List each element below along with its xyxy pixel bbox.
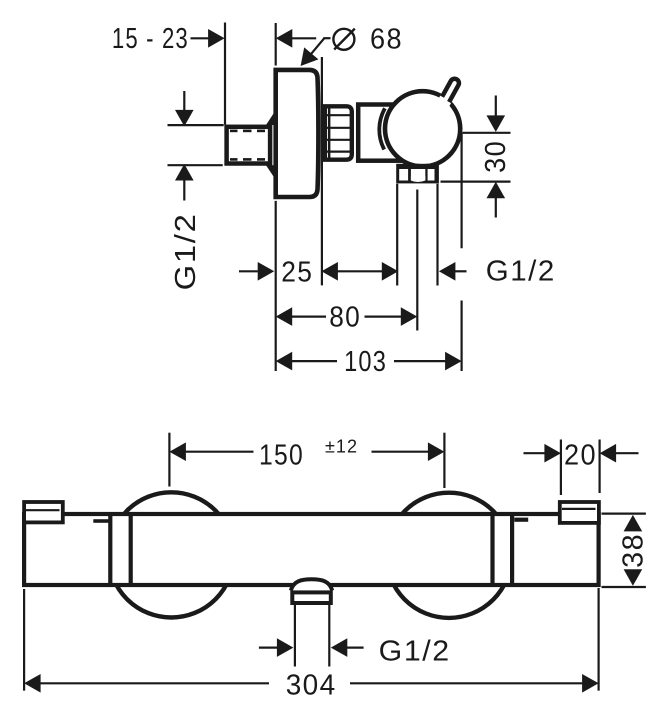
outlet nut side view <box>396 164 439 184</box>
svg-text:304: 304 <box>286 669 337 701</box>
extension line face lower <box>275 201 277 371</box>
dimension 304 <box>24 669 599 701</box>
wall escutcheon right <box>560 502 599 523</box>
dimension O68 arrow <box>276 29 316 48</box>
dimension G1/2 outlet side view <box>382 256 556 288</box>
svg-text:103: 103 <box>344 346 387 378</box>
svg-text:30: 30 <box>480 140 512 173</box>
svg-text:68: 68 <box>370 23 403 55</box>
dimension 20 <box>524 439 639 471</box>
outlet extension right <box>328 605 330 667</box>
knob skirt arc <box>379 108 385 149</box>
label G1/2 left rotated <box>170 212 202 290</box>
dimension 38 <box>602 514 650 587</box>
dimension 103 <box>276 346 462 378</box>
extension line 20 left <box>560 440 562 496</box>
knob lever nub <box>436 77 461 109</box>
extension line knob left center <box>168 433 170 487</box>
svg-text:80: 80 <box>329 302 361 334</box>
knob circle side view <box>385 91 460 166</box>
svg-text:25: 25 <box>281 257 313 289</box>
bar body <box>24 514 599 585</box>
extension line pipe bottom <box>168 164 223 166</box>
extension line outlet right <box>436 184 438 286</box>
knob right front view <box>386 493 511 618</box>
extension line 103 right lower <box>461 301 463 372</box>
dimension 30 <box>441 96 512 218</box>
valve body <box>358 105 431 161</box>
knob left front view <box>109 492 234 617</box>
extension line 304 left <box>23 589 25 691</box>
dimension G1/2 bottom <box>259 635 451 667</box>
union cone lower <box>266 165 276 180</box>
centerline outlet <box>416 190 418 331</box>
extension line 25 right <box>321 57 323 285</box>
inlet pipe <box>227 127 271 164</box>
leader O68 <box>301 23 403 66</box>
dimension 150 +-12 <box>169 437 444 472</box>
union cone upper <box>266 110 276 125</box>
svg-text:20: 20 <box>564 439 597 471</box>
dimension pipe vertical upper arrow <box>175 91 194 126</box>
knob ring left <box>110 512 130 586</box>
svg-text:38: 38 <box>617 533 649 568</box>
svg-text:G1/2: G1/2 <box>170 212 202 290</box>
knob ring right <box>493 512 513 586</box>
extension line outlet left <box>396 184 398 286</box>
svg-text:G1/2: G1/2 <box>379 635 451 667</box>
supply stub left <box>93 519 108 523</box>
outlet extension left <box>294 605 296 667</box>
svg-text:150: 150 <box>259 439 304 471</box>
extension line 20 right <box>598 440 600 494</box>
extension line pipe top <box>168 124 224 126</box>
dimension 25 <box>239 257 382 289</box>
escutcheon <box>276 70 319 197</box>
extension line 103 right upper <box>461 133 463 248</box>
supply stub right <box>514 518 528 522</box>
svg-text:G1/2: G1/2 <box>486 256 556 288</box>
wall line <box>224 23 226 125</box>
extension line knob right center <box>443 433 445 488</box>
svg-text:±12: ±12 <box>325 437 358 457</box>
dimension pipe vertical lower arrow <box>175 164 194 201</box>
extension line escutcheon face <box>275 23 277 66</box>
wall escutcheon left <box>24 502 63 522</box>
union nut <box>325 106 352 159</box>
outlet front view <box>291 579 332 603</box>
dimension 80 <box>276 302 418 334</box>
svg-text:15 - 23: 15 - 23 <box>112 23 189 55</box>
dimension 15-23 <box>112 23 225 55</box>
extension line 304 right <box>597 588 599 691</box>
